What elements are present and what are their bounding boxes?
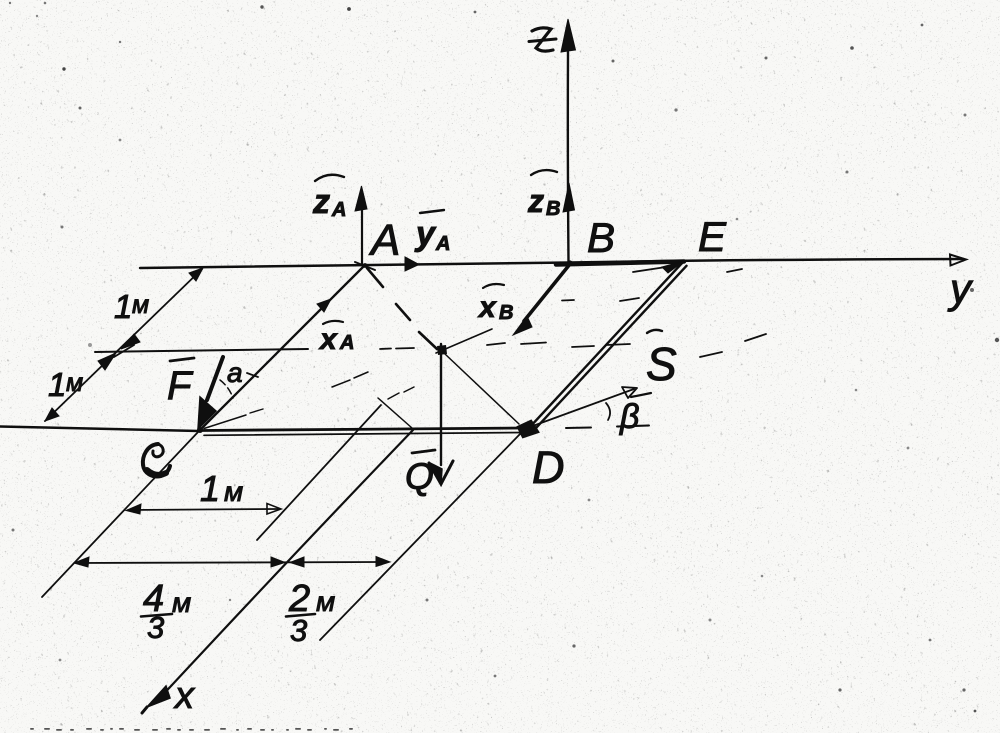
node A junction (355, 262, 375, 270)
zB arrowhead on Z axis (563, 183, 575, 212)
node B junction blob (567, 260, 572, 265)
svg-text:A: A (435, 233, 450, 255)
angle beta arc (606, 403, 610, 420)
right arrowhead (376, 557, 390, 567)
yA arrowhead on axis (405, 257, 419, 271)
force S line (530, 389, 634, 427)
svg-text:x: x (318, 323, 338, 356)
svg-text:м: м (224, 476, 243, 507)
Z axis (567, 52, 570, 262)
svg-text:x: x (477, 291, 497, 324)
svg-text:1: 1 (114, 288, 132, 325)
arrowhead bottom (45, 408, 59, 421)
edge AC (200, 266, 364, 430)
svg-text:z: z (312, 183, 330, 221)
svg-text:м: м (66, 369, 83, 397)
faint line C to center (CE diagonal) (204, 415, 246, 429)
svg-text:B: B (499, 302, 513, 324)
label Z (532, 28, 553, 51)
Z axis arrowhead (561, 19, 576, 52)
x axis (158, 430, 413, 700)
D junction blob (518, 421, 538, 437)
tick at middle crossing (114, 345, 134, 357)
understroke near E (633, 267, 666, 272)
svg-text:y: y (414, 215, 437, 253)
horizontal line 2 (1m level) (95, 349, 308, 352)
xB arrowhead (513, 316, 532, 335)
C junction blob (197, 427, 203, 433)
svg-text:1: 1 (200, 468, 220, 509)
force F arrowhead (198, 397, 216, 429)
arrowheads middle pair (121, 334, 140, 349)
x axis faint upper stub (378, 398, 412, 428)
CD left extension (0, 427, 199, 432)
force F line (207, 357, 223, 400)
arrowhead top (1m) (189, 268, 203, 281)
zA axis at A (361, 196, 363, 264)
faint line center to D (445, 354, 519, 424)
svg-text:a: a (227, 357, 243, 388)
svg-text:D: D (532, 442, 565, 493)
svg-text:A: A (368, 216, 400, 265)
svg-text:y: y (947, 265, 974, 312)
svg-text:β: β (619, 398, 639, 436)
edge CD upper stroke (200, 428, 524, 431)
left dimension diagonal (45, 269, 202, 421)
svg-text:E: E (698, 213, 727, 260)
svg-text:м: м (316, 586, 335, 617)
angle alpha arc (220, 380, 233, 398)
label C (143, 444, 170, 476)
svg-text:3: 3 (290, 613, 307, 648)
svg-text:м: м (132, 291, 149, 319)
D diagonal below (320, 433, 521, 640)
zA arrowhead (355, 186, 367, 211)
thick edge B to E (556, 262, 684, 265)
stray dash right of B (562, 269, 742, 301)
bottom scan edge dotted band (30, 728, 353, 731)
svg-text:x: x (173, 675, 196, 717)
y axis arrowhead (950, 255, 966, 266)
bottom 1m dimension line (128, 509, 278, 510)
svg-text:3: 3 (147, 610, 164, 645)
force Q line (440, 344, 442, 465)
svg-text:B: B (546, 198, 560, 220)
svg-text:F: F (167, 364, 194, 408)
scan specks top-left corner (9, 2, 11, 4)
y axis (140, 259, 963, 268)
C diagonal below (42, 431, 199, 597)
dashed diagonal A to center (367, 268, 437, 349)
CD dashed extension right of D (566, 426, 649, 429)
svg-text:м: м (172, 587, 191, 618)
svg-text:B: B (587, 214, 615, 261)
1m stub diagonal (257, 405, 381, 540)
svg-text:z: z (527, 183, 544, 219)
force Q arrowhead (429, 461, 453, 484)
faint dashes below center (388, 387, 414, 399)
svg-text:A: A (331, 199, 346, 221)
horizontal dashed line through center (380, 348, 414, 349)
svg-text:1: 1 (48, 366, 66, 403)
node A junction blob (363, 263, 368, 268)
left arrowhead (74, 557, 89, 567)
svg-text:A: A (339, 332, 354, 354)
x axis arrowhead (147, 686, 170, 707)
edge CD lower stroke (204, 433, 526, 436)
xB axis thick segment from B (524, 264, 570, 321)
butterfly arrowheads at x axis (271, 557, 285, 567)
force S arrowhead open (622, 387, 637, 398)
edge ED double line (529, 262, 683, 428)
svg-text:S: S (646, 338, 677, 390)
center point (437, 345, 447, 355)
x_A axis arrowhead on CA (317, 299, 331, 312)
long dimension line 4/3 2/3 (76, 562, 388, 563)
junction wedge at E (662, 261, 684, 273)
svg-text:Q: Q (405, 456, 434, 497)
